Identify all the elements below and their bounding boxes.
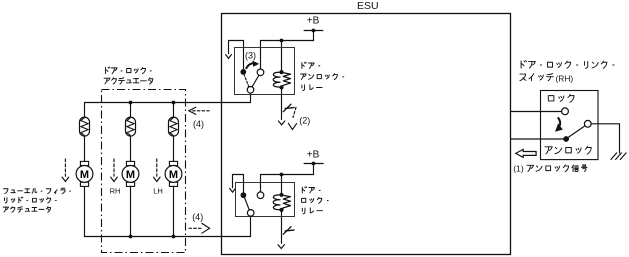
svg-text:RH: RH bbox=[110, 186, 121, 195]
svg-text:(1): (1) bbox=[513, 164, 524, 174]
svg-text:ESU: ESU bbox=[357, 0, 379, 12]
svg-text:M: M bbox=[80, 169, 89, 181]
svg-text:M: M bbox=[126, 169, 135, 181]
svg-text:M: M bbox=[169, 169, 178, 181]
svg-text:+B: +B bbox=[307, 150, 320, 161]
svg-text:(2): (2) bbox=[299, 116, 310, 126]
svg-text:(4): (4) bbox=[193, 119, 204, 129]
svg-text:(4): (4) bbox=[192, 212, 203, 222]
svg-text:(3): (3) bbox=[245, 50, 256, 60]
svg-text:LH: LH bbox=[153, 186, 163, 195]
svg-text:(RH): (RH) bbox=[556, 74, 574, 84]
svg-text:+B: +B bbox=[307, 15, 320, 26]
